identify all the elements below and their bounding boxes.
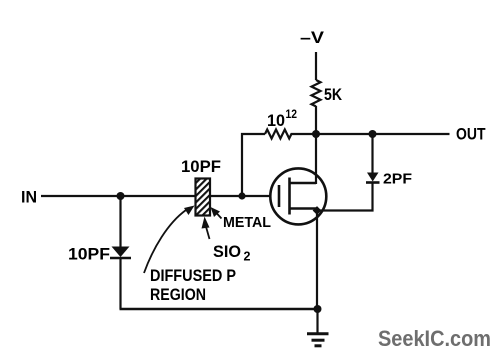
svg-text:REGION: REGION	[150, 286, 206, 304]
node: source junction (diamond dot)	[313, 206, 322, 215]
wire: ground lead	[316, 309, 318, 333]
wire: drain vertical into circle	[315, 134, 317, 184]
arrow: diffused region curved pointer	[144, 210, 186, 273]
diode D2 (2PF varactor, pointing down)	[367, 173, 379, 182]
svg-text:2: 2	[244, 250, 251, 264]
capacitor C1 10PF: hatched MOS structure	[196, 179, 211, 216]
node: out / 2PF junction	[369, 130, 377, 138]
svg-text:DIFFUSED P: DIFFUSED P	[150, 267, 236, 285]
svg-text:SeekIC.com: SeekIC.com	[378, 326, 491, 351]
wire: -V lead down to 5K	[315, 52, 317, 80]
svg-text:IN: IN	[21, 188, 37, 207]
svg-text:2PF: 2PF	[383, 171, 412, 188]
svg-text:12: 12	[286, 107, 298, 121]
wire: source down to bottom rail	[316, 211, 318, 310]
svg-text:METAL: METAL	[223, 214, 271, 231]
MOSFET Q1: body circle	[270, 168, 326, 224]
resistor R1 5K (vertical zigzag)	[312, 80, 321, 106]
wire: 2PF top lead	[371, 134, 373, 173]
wire: 5K to output node	[315, 106, 317, 134]
node: source/ground junction	[314, 305, 322, 313]
wire: source to 2PF branch	[317, 183, 373, 211]
svg-text:10PF: 10PF	[181, 157, 221, 176]
svg-text:–V: –V	[300, 28, 325, 47]
svg-text:5K: 5K	[324, 85, 343, 104]
wire: input horizontal (gate wire)	[41, 195, 271, 197]
wire: bottom rail horizontal	[120, 308, 318, 311]
node: drain/output junction	[312, 130, 320, 138]
node: gate junction	[238, 192, 245, 199]
arrow: SIO2 pointer	[206, 226, 210, 239]
diode D1 (10PF varactor, pointing down)	[112, 247, 130, 258]
wire: corner to 10^12 resistor	[242, 134, 265, 196]
MOSFET Q1: gate bar	[278, 185, 281, 207]
MOSFET Q1: channel bar	[288, 178, 291, 215]
resistor R2 10^12 (horizontal zigzag)	[265, 130, 316, 139]
svg-text:SIO: SIO	[213, 243, 241, 261]
svg-text:10PF: 10PF	[68, 245, 110, 264]
node: input junction	[117, 192, 125, 200]
ground symbol	[307, 332, 329, 335]
wire: output horizontal to OUT	[316, 133, 450, 135]
arrow: METAL pointer	[216, 212, 222, 219]
svg-text:10: 10	[267, 111, 285, 130]
MOSFET Q1: drain arm	[290, 182, 317, 185]
wire: input branch down to diode	[119, 196, 121, 248]
svg-text:OUT: OUT	[456, 126, 486, 144]
MOSFET Q1: source arm	[290, 207, 318, 210]
wire: diode to bottom rail	[119, 258, 121, 309]
